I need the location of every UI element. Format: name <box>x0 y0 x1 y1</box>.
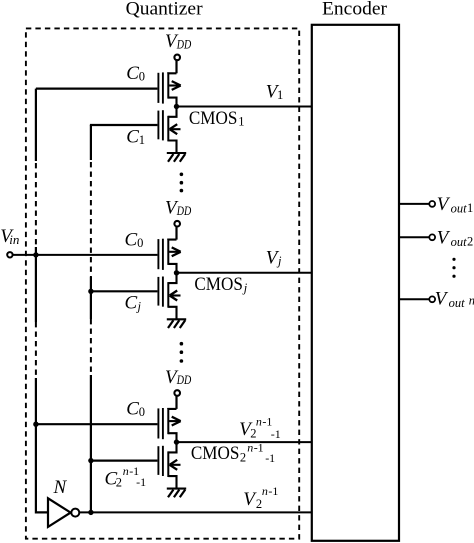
svg-text:1: 1 <box>238 114 244 128</box>
wire bus Vin segment to inverter input <box>36 378 48 512</box>
transistor NMOS M2b (floating-gate) <box>158 273 180 320</box>
junction N-out bus / stage-3 tap <box>88 458 93 463</box>
component label CMOSj <box>194 274 247 295</box>
wire output V1 to encoder <box>177 106 312 108</box>
svg-text:CMOS: CMOS <box>189 108 238 129</box>
svg-text:n: n <box>262 484 268 498</box>
input label Vin <box>0 226 19 247</box>
svg-text:in: in <box>9 232 19 247</box>
wire encoder output Vout2 <box>399 236 431 238</box>
capacitor label C2^(n-1)-1 (stage 3) <box>105 464 147 490</box>
wire capacitor input Cj to NMOS gate (stage 2) <box>90 290 157 292</box>
transistor NMOS M3b (floating-gate) <box>158 442 180 489</box>
wire bus N-out segment (stage 2) <box>90 277 92 319</box>
node output Vj <box>174 270 179 275</box>
net label V2^(n-1) <box>243 484 278 511</box>
power label VDD (stage 1) <box>165 31 191 52</box>
ellipsis continuation dots (between stage 2 and 3) <box>180 342 184 363</box>
svg-text:n: n <box>256 415 262 429</box>
wire capacitor input C0 to PMOS gate (stage 1) <box>36 87 157 89</box>
input terminal Vin <box>7 252 12 257</box>
wire encoder output Vout n <box>399 298 431 300</box>
wire output V2^(n-1)-1 to encoder <box>177 441 312 443</box>
svg-text:n: n <box>247 440 253 454</box>
svg-text:C: C <box>125 229 138 250</box>
svg-text:out: out <box>449 296 466 310</box>
output terminal Vout2 <box>429 234 435 240</box>
output terminal Vout n <box>429 296 435 302</box>
svg-text:N: N <box>53 477 68 498</box>
svg-text:1: 1 <box>467 201 473 215</box>
wire inverter output V2^(n-1) to encoder <box>79 511 311 513</box>
capacitor label C0 (stage 3) <box>126 399 145 420</box>
svg-text:0: 0 <box>139 405 145 419</box>
svg-text:0: 0 <box>137 236 143 250</box>
node output V1 <box>174 104 179 109</box>
wire bus N-out segment (stage 1) <box>90 125 92 160</box>
svg-text:n: n <box>469 293 474 307</box>
inverter N <box>48 498 71 527</box>
wire bus N-out segment to inverter output line <box>90 375 92 512</box>
ground (stage 3) <box>167 489 186 498</box>
inverter output bubble <box>71 509 79 517</box>
power label VDD (stage 3) <box>165 367 191 388</box>
svg-text:DD: DD <box>176 373 191 387</box>
power terminal VDD (stage 3) <box>174 390 180 396</box>
transistor PMOS M2a (floating-gate) <box>158 239 180 273</box>
transistor NMOS M1b (floating-gate) <box>158 107 180 154</box>
transistor PMOS M3a (floating-gate) <box>158 408 180 442</box>
wire bus N-out dashed continuation 2 <box>90 319 92 375</box>
svg-text:1: 1 <box>139 133 145 147</box>
wire bus Vin dashed continuation 2 <box>35 322 37 378</box>
wire capacitor input C0 to PMOS gate (stage 3) <box>36 423 157 425</box>
wire encoder output Vout1 <box>399 203 431 205</box>
wire output Vj to encoder <box>177 272 312 274</box>
svg-text:Encoder: Encoder <box>322 0 388 20</box>
junction N-out bus / stage-2 Cj tap <box>88 289 93 294</box>
ellipsis continuation dots (between stage 1 and 2) <box>180 173 184 193</box>
wire bus Vin segment (stage 1) <box>35 89 37 161</box>
ellipsis dots between outputs <box>452 258 455 278</box>
capacitor label C1 (stage 1) <box>126 126 145 147</box>
wire capacitor input C2^(n-1)-1 to NMOS gate (stage 3) <box>90 460 157 462</box>
wire VDD to PMOS source (stage 3) <box>175 396 177 409</box>
svg-text:C: C <box>126 126 139 147</box>
wire Vin to C0 gate (stage 2) <box>13 254 158 256</box>
svg-text:-1: -1 <box>271 427 281 441</box>
net label Vj <box>266 247 282 268</box>
svg-text:1: 1 <box>277 88 283 102</box>
net label V2^(n-1)-1 <box>239 415 281 441</box>
output label Vout2 <box>437 227 473 248</box>
svg-text:C: C <box>126 399 139 420</box>
junction Vin bus / stage-3 C0 tap <box>33 422 38 427</box>
output label Vout1 <box>437 194 473 215</box>
svg-text:2: 2 <box>256 497 262 511</box>
ground (stage 1) <box>167 153 186 162</box>
svg-text:CMOS: CMOS <box>194 274 243 295</box>
svg-text:2: 2 <box>467 235 473 249</box>
wire bus Vin segment (stage 2) <box>35 247 37 322</box>
wire VDD to PMOS source (stage 2) <box>175 227 177 240</box>
svg-text:2: 2 <box>240 451 246 465</box>
quantizer block dashed boundary <box>26 28 299 538</box>
svg-text:-1: -1 <box>265 451 275 465</box>
transistor PMOS M1a (floating-gate) <box>158 72 180 106</box>
svg-text:C: C <box>126 63 139 84</box>
wire capacitor input C1 to NMOS gate (stage 1) <box>90 124 157 126</box>
svg-text:C: C <box>125 293 138 314</box>
node output V2^(n-1)-1 <box>174 439 179 444</box>
ground (stage 2) <box>167 319 186 328</box>
svg-text:DD: DD <box>176 204 191 218</box>
svg-text:out: out <box>451 235 468 249</box>
svg-text:Quantizer: Quantizer <box>126 0 204 19</box>
svg-text:2: 2 <box>116 475 122 489</box>
svg-text:n: n <box>123 464 129 478</box>
capacitor label C0 (stage 1) <box>126 63 145 84</box>
svg-text:0: 0 <box>139 70 145 84</box>
component label CMOS1 <box>189 108 245 129</box>
wire bus Vin dashed continuation 1 <box>35 163 37 247</box>
wire bus N-out dashed continuation 1 <box>90 162 92 277</box>
svg-text:DD: DD <box>176 38 191 52</box>
wire VDD to PMOS source (stage 1) <box>175 60 177 73</box>
output terminal Vout1 <box>429 201 435 207</box>
component label CMOS2^(n-1)-1 <box>191 440 275 465</box>
gate label N <box>53 477 68 498</box>
svg-text:-1: -1 <box>254 440 264 454</box>
svg-text:out: out <box>451 201 468 215</box>
svg-text:CMOS: CMOS <box>191 443 240 464</box>
junction N-out bus / inverter output <box>88 510 93 515</box>
capacitor label Cj (stage 2) <box>125 293 142 314</box>
capacitor label C0 (stage 2) <box>125 229 144 250</box>
encoder block U2 <box>312 25 399 541</box>
svg-text:-1: -1 <box>268 484 278 498</box>
svg-text:-1: -1 <box>136 475 146 489</box>
power terminal VDD (stage 1) <box>174 55 180 61</box>
junction Vin / stage-2 tap <box>33 252 38 257</box>
power terminal VDD (stage 2) <box>174 221 180 227</box>
power label VDD (stage 2) <box>165 198 191 219</box>
net label V1 <box>266 82 283 103</box>
output label Vout n <box>435 289 474 310</box>
